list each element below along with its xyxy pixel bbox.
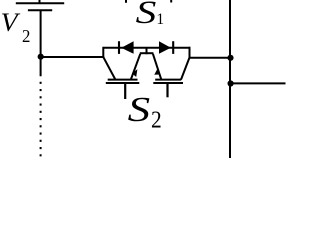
- transistor Q1 emitter slant: [131, 54, 141, 80]
- stub top gate lead left (cropped S1 cell): [125, 0, 127, 3]
- transistor Q1 gate bar: [106, 82, 140, 84]
- diode D2 cathode bar: [172, 41, 174, 54]
- svg-text:2: 2: [151, 107, 162, 133]
- node junction dot bus upper: [227, 55, 233, 61]
- wire right terminal horizontal: [190, 57, 231, 59]
- svg-text:1: 1: [156, 11, 164, 28]
- wire middle riser (common emitter): [146, 48, 148, 54]
- wire left riser: [102, 47, 104, 58]
- transistor Q2 emitter slant: [153, 54, 161, 80]
- svg-text:S: S: [128, 91, 151, 129]
- transistor Q1 collector slant: [103, 57, 115, 79]
- node junction dot left: [38, 54, 44, 60]
- battery V2 short plate: [28, 9, 52, 11]
- dotted wire continuation down: [40, 82, 42, 157]
- svg-text:2: 2: [22, 26, 30, 46]
- wire left terminal horizontal: [41, 56, 104, 58]
- transistor Q2 collector slant: [181, 58, 190, 80]
- svg-text:S: S: [136, 0, 157, 31]
- diode D1 triangle (points left): [121, 41, 133, 54]
- transistor Q1 emitter arrow: [132, 69, 138, 77]
- transistor Q2 upper bar: [155, 79, 181, 81]
- battery V2 top lead: [39, 0, 41, 3]
- right bus vertical wire: [229, 0, 231, 158]
- node junction dot bus lower: [228, 80, 234, 86]
- battery V2 long plate: [16, 2, 64, 4]
- transistor Q1 gate lead: [124, 83, 126, 99]
- wire top bar of switch cell: [103, 47, 190, 49]
- wire middle emitter bar: [140, 52, 154, 54]
- svg-text:V: V: [1, 8, 21, 37]
- diode D1 cathode bar: [118, 41, 120, 54]
- wire right branch horizontal: [231, 82, 286, 84]
- transistor Q2 gate bar: [153, 82, 183, 84]
- diode D2 triangle (points right): [159, 41, 171, 54]
- transistor Q2 gate lead: [166, 83, 168, 97]
- stub top gate lead right (cropped S1 cell): [170, 0, 172, 3]
- transistor Q2 emitter arrow: [154, 69, 159, 74]
- wire battery to node (vertical): [40, 10, 42, 76]
- wire right riser: [189, 47, 191, 59]
- transistor Q1 upper bar: [108, 79, 138, 81]
